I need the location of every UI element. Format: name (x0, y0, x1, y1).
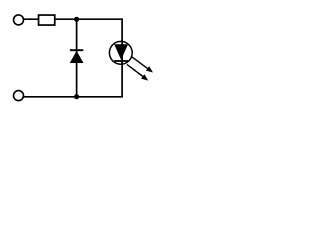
LED D2 triangle (pointing down) (114, 44, 128, 60)
LED D2 body circle (109, 41, 132, 64)
LED emission arrow 1 shaft (131, 56, 148, 69)
junction node bottom (74, 94, 79, 99)
LED emission arrow 2 shaft (127, 64, 144, 77)
diode D1 cathode bar (70, 49, 83, 51)
LED emission arrow 2 head (141, 74, 148, 80)
terminal top-left (14, 15, 24, 25)
wire middle vertical branch (76, 19, 78, 97)
LED D2 cathode bar (114, 60, 128, 62)
terminal bottom-left (14, 91, 24, 101)
wire: top rail, right branch down, bottom rail (23, 19, 122, 97)
diode D1 triangle (pointing up) (70, 51, 84, 63)
resistor R1 box (39, 15, 55, 25)
junction node top (74, 17, 79, 22)
LED emission arrow 1 head (146, 66, 153, 72)
